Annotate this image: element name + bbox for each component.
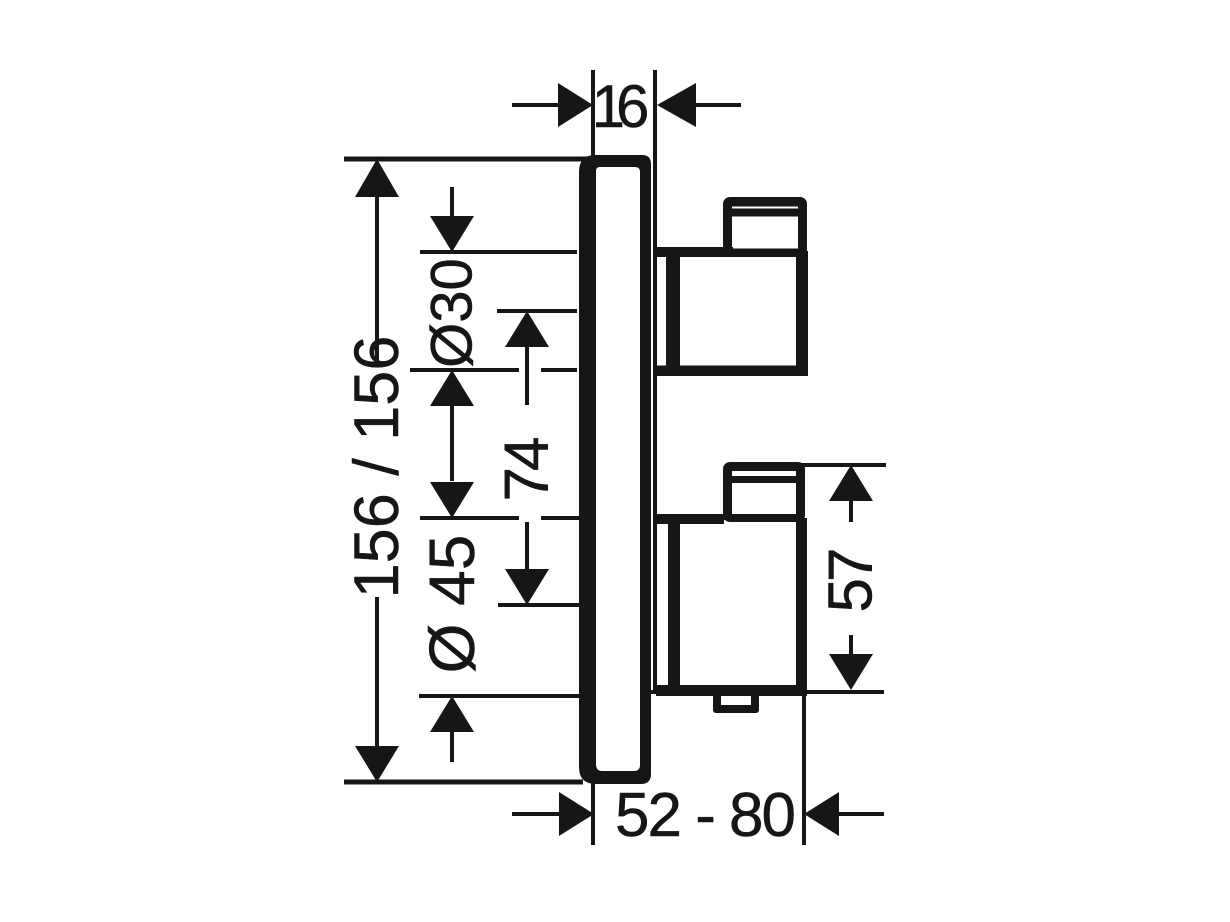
svg-text:52 - 80: 52 - 80 [615, 781, 795, 850]
svg-text:Ø30: Ø30 [420, 258, 485, 368]
svg-text:156 / 156: 156 / 156 [342, 336, 412, 599]
svg-text:Ø 45: Ø 45 [416, 535, 488, 674]
svg-text:57: 57 [817, 550, 886, 612]
svg-text:16: 16 [592, 73, 647, 140]
svg-text:74: 74 [493, 438, 562, 501]
